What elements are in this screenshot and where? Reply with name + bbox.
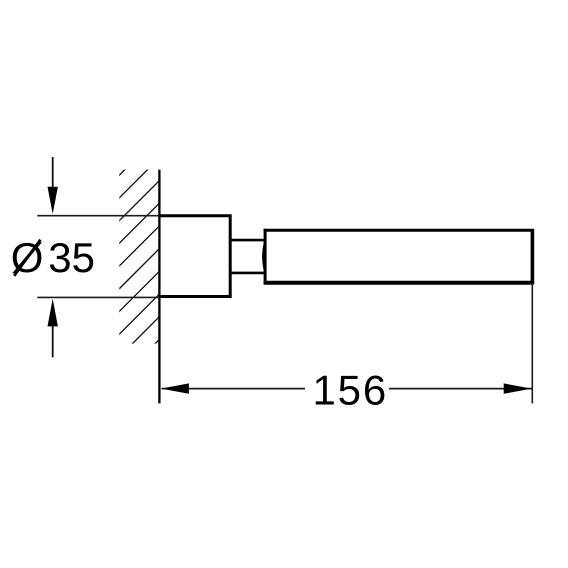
extension line bottom (Ø35) [37, 296, 159, 298]
neck top line [230, 239, 265, 242]
bracket escutcheon [159, 216, 230, 297]
arm cap arc [263, 241, 265, 271]
dim arrow top (Ø35) [52, 157, 54, 190]
dim line 156 right segment [389, 388, 532, 390]
dim line 156 left segment [162, 388, 306, 390]
arm cylinder [264, 229, 533, 232]
extension line right (156) [531, 285, 533, 403]
wall line [158, 170, 160, 404]
svg-text:35: 35 [48, 234, 95, 281]
wall hatching [0, 155, 344, 355]
neck bottom line [230, 272, 265, 275]
dim arrow left (156) [161, 383, 189, 393]
svg-text:156: 156 [313, 367, 388, 414]
dim arrow bottom (Ø35) [52, 325, 54, 357]
diameter slash extension [14, 240, 40, 276]
dim arrow right (156) [504, 383, 532, 393]
extension line top (Ø35) [37, 215, 159, 217]
